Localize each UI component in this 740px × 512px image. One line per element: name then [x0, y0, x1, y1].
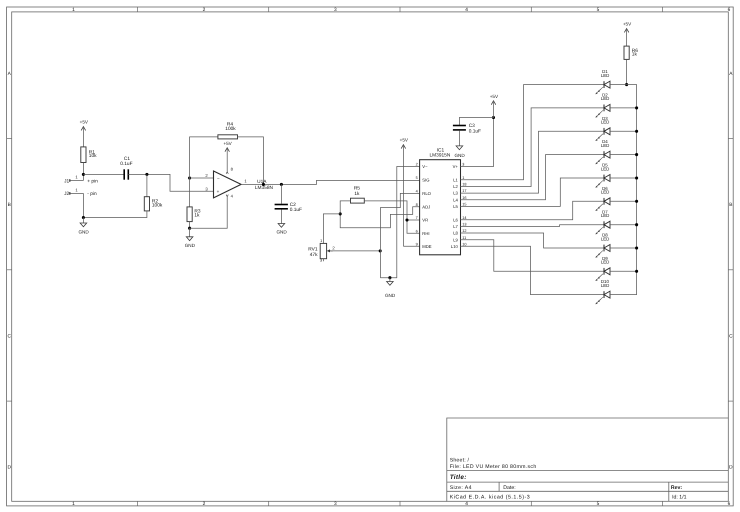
wire R1 to node — [82, 163, 84, 175]
capacitor C1 — [123, 169, 125, 179]
wire L9 pin to D9 cathode — [461, 240, 605, 272]
svg-text:4: 4 — [465, 501, 468, 507]
svg-text:L2: L2 — [453, 184, 458, 189]
resistor R3 — [187, 207, 192, 222]
svg-text:L10: L10 — [451, 244, 459, 249]
svg-text:J1: J1 — [64, 178, 69, 184]
wire C1 to opamp +input — [129, 174, 214, 191]
svg-text:7: 7 — [416, 216, 418, 220]
wire opamp V- rail — [190, 197, 228, 228]
svg-text:GND: GND — [385, 293, 396, 298]
svg-text:10k: 10k — [89, 153, 97, 159]
svg-text:J2: J2 — [64, 191, 69, 197]
svg-text:+5V: +5V — [400, 138, 409, 143]
svg-text:5: 5 — [597, 501, 600, 507]
svg-text:18: 18 — [462, 183, 466, 187]
title block row lines — [447, 469, 729, 471]
wire node to C3 — [459, 118, 493, 125]
svg-text:6: 6 — [416, 229, 418, 233]
capacitor C3 — [453, 125, 466, 127]
svg-text:GND: GND — [78, 229, 89, 234]
svg-text:0.1uF: 0.1uF — [120, 161, 132, 167]
svg-text:LM358N: LM358N — [255, 185, 274, 191]
wire D5 anode — [610, 177, 637, 179]
wire R6 to D1 anode — [626, 59, 628, 84]
svg-text:LED: LED — [601, 260, 610, 265]
svg-text:GND: GND — [276, 230, 287, 235]
wire L10 pin to D10 cathode — [461, 246, 605, 294]
wire L2 pin to D2 cathode — [461, 108, 605, 187]
node wiper junction — [379, 249, 382, 252]
LED D3 — [603, 128, 605, 135]
node C2 tap — [280, 183, 283, 186]
node D7 anode junction — [635, 223, 638, 226]
wire D10 anode — [610, 294, 637, 296]
svg-text:+5V: +5V — [80, 120, 89, 125]
wire +5V to MODE pin — [403, 245, 419, 247]
svg-text:5: 5 — [416, 176, 418, 180]
svg-text:LED: LED — [601, 120, 610, 125]
wire J2 down to ground rail — [82, 193, 84, 217]
svg-text:LM3915N: LM3915N — [429, 153, 450, 159]
svg-text:8: 8 — [416, 203, 418, 207]
svg-text:15: 15 — [462, 203, 466, 207]
svg-text:1k: 1k — [354, 191, 360, 197]
wire L8 pin to D8 cathode — [461, 233, 605, 248]
wire D4 anode — [610, 154, 637, 156]
node REF/RHI junction — [405, 218, 408, 221]
svg-text:LED: LED — [601, 166, 610, 171]
svg-text:GND: GND — [185, 243, 196, 248]
svg-text:D: D — [7, 465, 11, 471]
svg-text:L6: L6 — [453, 217, 458, 222]
node R3/opamp V- junction — [188, 227, 191, 230]
svg-text:IC1: IC1 — [437, 148, 445, 154]
svg-text:17: 17 — [462, 189, 466, 193]
node D4 anode junction — [635, 153, 638, 156]
wire D1 anode — [610, 84, 627, 86]
resistor R4 — [218, 135, 238, 139]
wire L3 pin to D3 cathode — [461, 131, 605, 193]
node R5/RV1 junction — [339, 212, 342, 215]
svg-text:9: 9 — [416, 242, 418, 246]
wire D2 anode — [610, 107, 637, 109]
wire node to RV1 top — [323, 214, 340, 244]
svg-text:LED: LED — [601, 190, 610, 195]
svg-text:4: 4 — [416, 190, 418, 194]
svg-text:B: B — [729, 202, 732, 208]
svg-text:L4: L4 — [453, 197, 458, 202]
wire L5 pin to D5 cathode — [461, 178, 605, 206]
IC U1 LM3915N box — [420, 160, 461, 255]
svg-text:1k: 1k — [632, 52, 638, 58]
wire L4 pin to D4 cathode — [461, 155, 605, 200]
node gnd rail junction — [388, 276, 391, 279]
wire V- pin to gnd rail — [397, 167, 420, 278]
wire wiper node down to rail — [379, 251, 381, 278]
wire node to C1 — [83, 173, 124, 175]
wire node to R2 — [146, 174, 148, 196]
svg-text:L7: L7 — [453, 224, 458, 229]
svg-text:L3: L3 — [453, 191, 458, 196]
wire D9 anode — [610, 270, 637, 272]
frame row ticks — [7, 137, 12, 139]
svg-text:MDE: MDE — [422, 244, 432, 249]
ground GND (rail) — [389, 278, 391, 282]
svg-text:L1: L1 — [453, 177, 458, 182]
svg-text:Sheet: /: Sheet: / — [450, 458, 470, 464]
node D1 anode junction — [625, 83, 628, 86]
ground GND (opamp) — [189, 228, 191, 237]
svg-text:LED: LED — [601, 143, 610, 148]
svg-text:B: B — [8, 202, 11, 208]
LED D6 — [603, 198, 605, 205]
svg-text:3: 3 — [462, 163, 464, 167]
svg-text:100k: 100k — [152, 202, 163, 208]
node D3 anode junction — [635, 130, 638, 133]
wire anode bus — [627, 85, 637, 295]
svg-text:Date:: Date: — [503, 485, 515, 491]
svg-text:+5V: +5V — [223, 141, 232, 146]
svg-text:100k: 100k — [225, 126, 236, 132]
svg-text:5: 5 — [597, 7, 600, 13]
svg-text:ADJ: ADJ — [422, 204, 430, 209]
svg-text:D: D — [729, 465, 733, 471]
svg-text:−: − — [217, 176, 220, 181]
svg-text:1: 1 — [462, 176, 464, 180]
LED D8 — [603, 245, 605, 252]
svg-text:0.1uF: 0.1uF — [469, 128, 481, 134]
svg-text:C: C — [7, 333, 11, 339]
resistor R5 — [351, 198, 365, 203]
ground GND (input) — [82, 218, 84, 224]
svg-text:LED: LED — [601, 283, 610, 288]
svg-text:1: 1 — [72, 501, 75, 507]
svg-text:2: 2 — [416, 163, 418, 167]
LED D7 — [603, 221, 605, 228]
node inverting input junction — [188, 176, 191, 179]
svg-text:12: 12 — [462, 229, 466, 233]
RV1 pin3 stub — [322, 259, 324, 262]
svg-text:3: 3 — [334, 501, 337, 507]
svg-text:Id: 1/1: Id: 1/1 — [672, 494, 687, 500]
wire D6 anode — [610, 200, 637, 202]
resistor R2 — [144, 197, 149, 211]
wire R3 to gnd node — [189, 222, 191, 229]
wire D3 anode — [610, 130, 637, 132]
connector J1 — [70, 180, 84, 182]
svg-text:1: 1 — [320, 239, 322, 243]
capacitor C2 — [275, 204, 288, 206]
svg-text:Title:: Title: — [450, 474, 467, 481]
LED D10 — [603, 291, 605, 298]
potentiometer RV1 — [320, 243, 326, 258]
svg-text:13: 13 — [462, 223, 466, 227]
svg-text:0.1uF: 0.1uF — [290, 207, 302, 213]
svg-text:6: 6 — [728, 501, 731, 507]
wire R5 left to ADJ staircase — [340, 201, 419, 228]
svg-text:1: 1 — [72, 7, 75, 13]
LED D1 — [603, 81, 605, 88]
svg-text:L9: L9 — [453, 237, 458, 242]
svg-text:LED: LED — [601, 213, 610, 218]
wire L6 pin to D6 cathode — [461, 201, 605, 219]
ground GND (C2) — [280, 210, 282, 224]
svg-text:6: 6 — [728, 7, 731, 13]
node D9 anode junction — [635, 270, 638, 273]
svg-text:14: 14 — [462, 216, 466, 220]
wire gnd rail — [380, 277, 396, 279]
svg-text:RHI: RHI — [422, 231, 429, 236]
svg-text:3: 3 — [320, 259, 322, 263]
wire L1 pin to D1 cathode — [461, 85, 605, 180]
svg-text:File: LED VU Meter 80 80mm.sch: File: LED VU Meter 80 80mm.sch — [450, 464, 537, 470]
wire RLO pin to gnd rail — [380, 193, 419, 251]
title block outline — [447, 418, 729, 501]
node ground rail junction — [82, 216, 85, 219]
title block column dividers — [498, 482, 500, 491]
svg-text:V−: V− — [422, 164, 428, 169]
svg-text:V+: V+ — [453, 164, 459, 169]
svg-text:GND: GND — [454, 153, 465, 158]
node C1/R2 junction — [145, 173, 148, 176]
wire D7 anode — [610, 224, 637, 226]
node feedback tap — [262, 183, 265, 186]
node D5 anode junction — [635, 176, 638, 179]
LED D4 — [603, 151, 605, 158]
wire D8 anode — [610, 247, 637, 249]
svg-text:2: 2 — [203, 501, 206, 507]
resistor R6 — [624, 46, 629, 59]
svg-text:VR: VR — [422, 218, 428, 223]
svg-text:4: 4 — [465, 7, 468, 13]
svg-text:3: 3 — [334, 7, 337, 13]
node D6 anode junction — [635, 200, 638, 203]
node D8 anode junction — [635, 246, 638, 249]
svg-text:16: 16 — [462, 196, 466, 200]
svg-text:LED: LED — [601, 96, 610, 101]
LED D2 — [603, 105, 605, 112]
svg-text:KiCad E.D.A. kicad (5.1.5)-3: KiCad E.D.A. kicad (5.1.5)-3 — [450, 494, 531, 500]
LED D9 — [603, 268, 605, 275]
wire R5 right to REF pin — [364, 201, 419, 233]
connector J2 — [70, 192, 84, 194]
wire REF pin stub — [407, 219, 420, 221]
svg-text:LED: LED — [601, 73, 610, 78]
svg-text:C2: C2 — [290, 202, 296, 208]
svg-text:+5V: +5V — [490, 94, 499, 99]
svg-text:RLO: RLO — [422, 191, 431, 196]
ground GND (C3) — [458, 131, 460, 146]
wire output to C2 — [280, 184, 282, 203]
svg-text:L5: L5 — [453, 204, 458, 209]
svg-text:Size: A4: Size: A4 — [450, 485, 472, 491]
svg-text:C: C — [729, 333, 733, 339]
svg-text:2: 2 — [203, 7, 206, 13]
svg-text:+5V: +5V — [623, 22, 632, 27]
wire output to SIG pin — [241, 180, 420, 184]
svg-text:LED: LED — [601, 236, 610, 241]
svg-text:SIG: SIG — [422, 178, 429, 183]
op-amp U1A triangle — [214, 171, 242, 198]
wire RV1 wiper to gnd net — [331, 250, 381, 252]
svg-text:RV1: RV1 — [308, 246, 318, 252]
node V+ junction — [492, 116, 495, 119]
svg-text:Rev:: Rev: — [671, 485, 683, 491]
svg-text:10: 10 — [462, 242, 466, 246]
wire inverting node to R3 — [189, 178, 191, 207]
svg-text:C3: C3 — [469, 123, 475, 129]
resistor R1 — [81, 147, 86, 163]
wire R2 to ground rail — [83, 211, 146, 218]
wire pin2 stub — [190, 177, 214, 179]
wire L7 pin to D7 cathode — [461, 225, 605, 227]
node D2 anode junction — [635, 106, 638, 109]
wire feedback up to R4 — [190, 137, 218, 178]
svg-text:L8: L8 — [453, 231, 458, 236]
wire R4 to output — [238, 137, 264, 185]
svg-text:11: 11 — [462, 236, 466, 240]
wire V+ pin to +5V node — [461, 118, 494, 167]
frame column ticks — [136, 7, 138, 12]
wire J1 to node — [82, 174, 84, 180]
svg-text:47k: 47k — [310, 252, 318, 258]
svg-text:+ pin: + pin — [87, 178, 98, 184]
svg-text:+: + — [217, 189, 220, 194]
RV1 wiper arrow — [328, 250, 333, 252]
node input junction — [82, 173, 85, 176]
svg-text:- pin: - pin — [87, 191, 97, 197]
LED D5 — [603, 175, 605, 182]
svg-text:1k: 1k — [194, 212, 200, 218]
svg-text:R5: R5 — [354, 186, 360, 192]
